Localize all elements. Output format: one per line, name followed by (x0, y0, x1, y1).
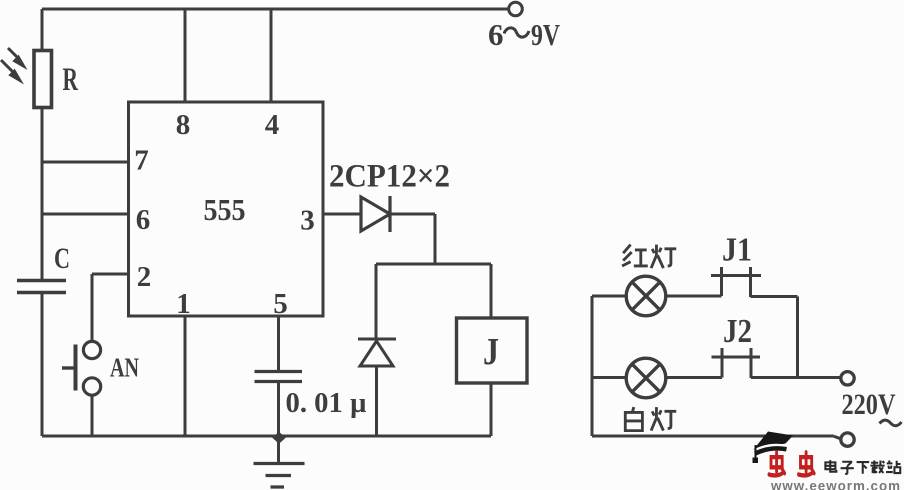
svg-text:3: 3 (300, 205, 315, 237)
svg-text:1: 1 (176, 288, 191, 320)
svg-text:6: 6 (488, 17, 504, 52)
svg-text:R: R (63, 62, 79, 98)
svg-text:2: 2 (137, 261, 152, 293)
svg-text:J2: J2 (723, 313, 752, 350)
svg-text:J: J (483, 331, 499, 373)
svg-text:2CP12×2: 2CP12×2 (329, 159, 450, 195)
svg-text:5: 5 (273, 288, 288, 320)
svg-text:AN: AN (110, 353, 139, 383)
svg-text:220V: 220V (842, 388, 896, 421)
svg-text:J1: J1 (722, 232, 752, 269)
svg-text:9V: 9V (531, 17, 560, 52)
svg-text:8: 8 (176, 109, 191, 141)
svg-text:555: 555 (204, 192, 246, 227)
svg-text:www.eeworm.com: www.eeworm.com (770, 479, 901, 490)
svg-text:0. 01 µ: 0. 01 µ (286, 387, 367, 419)
svg-text:6: 6 (136, 204, 151, 236)
svg-text:C: C (54, 242, 70, 275)
svg-text:4: 4 (265, 109, 280, 141)
svg-text:7: 7 (134, 145, 149, 177)
